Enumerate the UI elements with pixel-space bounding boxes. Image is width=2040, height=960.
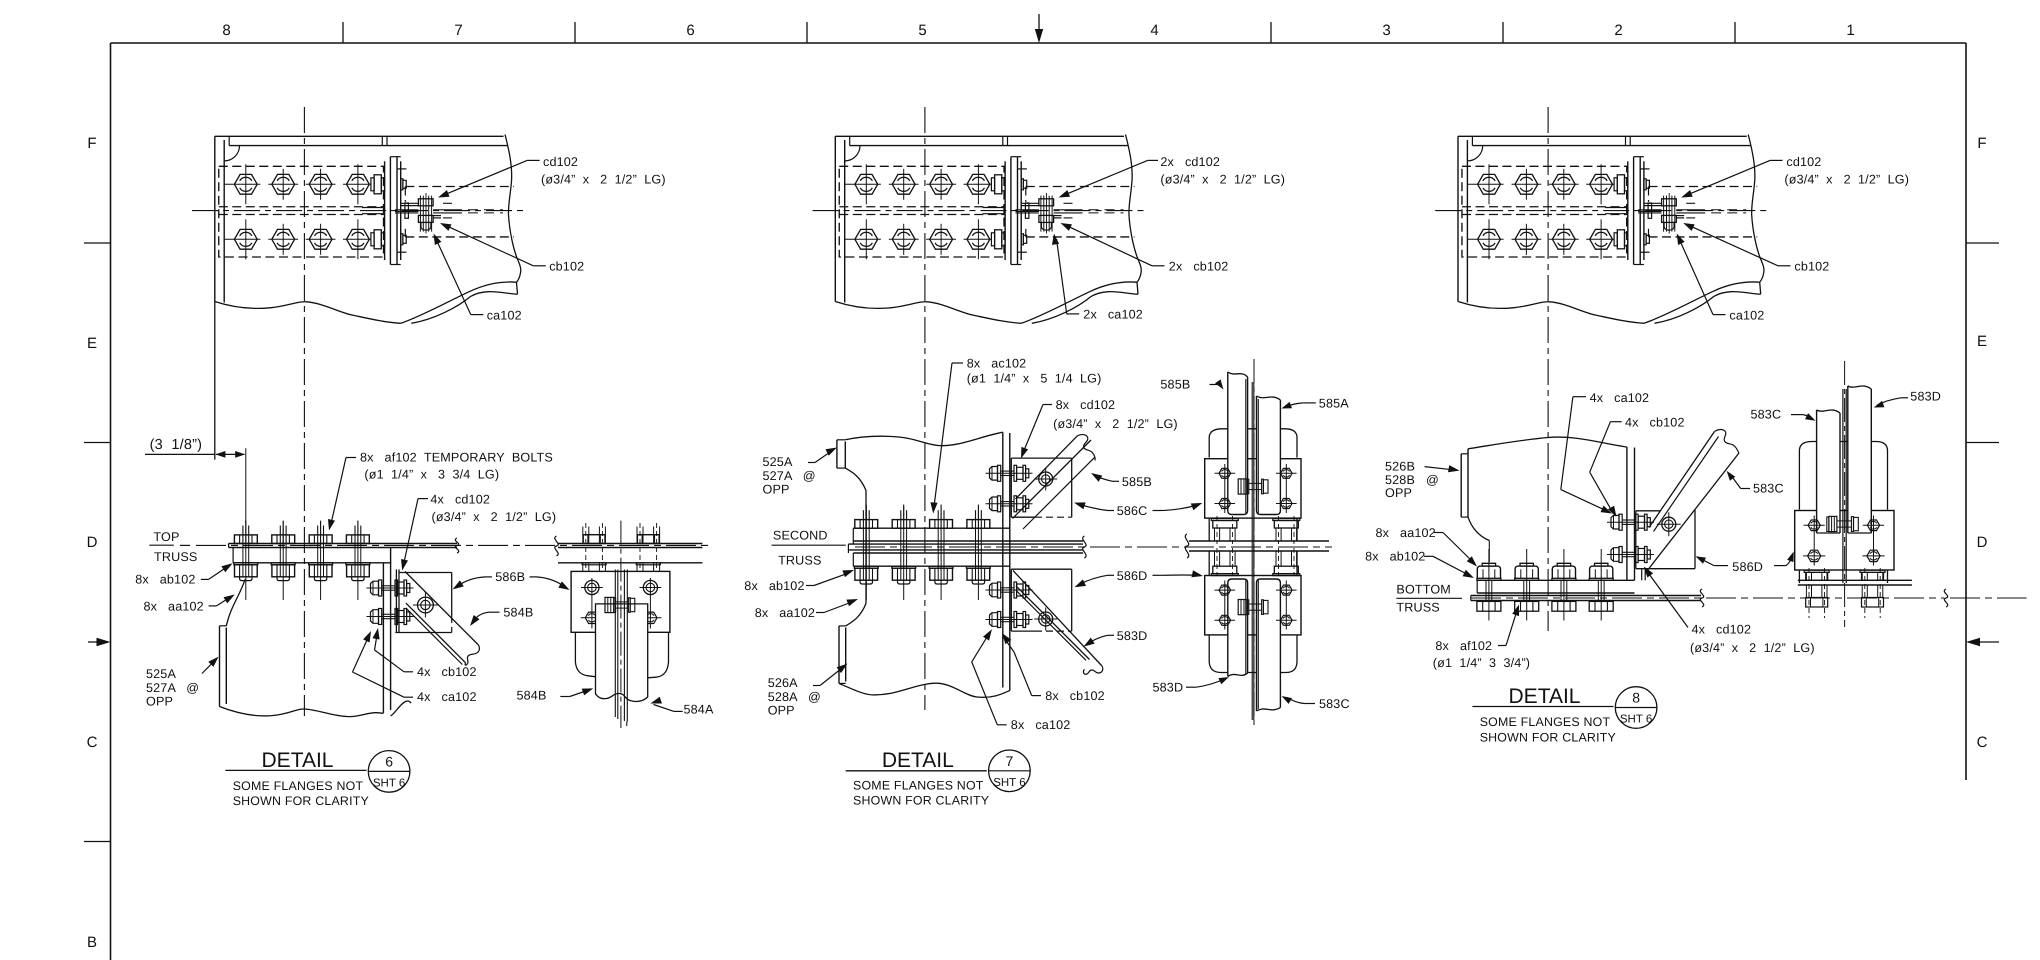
break arc outer: [1644, 282, 1760, 323]
svg-text:F: F: [1977, 135, 1986, 152]
flange bolt side view: [1614, 233, 1617, 246]
detail 7: chord plates: [853, 527, 1010, 529]
svg-text:8: 8: [1632, 690, 1640, 706]
bolt cd102/cb102/ca102 group at splice: [1040, 196, 1042, 232]
detail 6: vertical member (stem): [382, 563, 384, 713]
end flange plates: [1004, 161, 1006, 260]
splice plate edges: [401, 202, 419, 204]
d8 side: upper silhouette: [1798, 450, 1800, 510]
svg-text:(ø1 1/4” x 5 1/4 LG): (ø1 1/4” x 5 1/4 LG): [967, 372, 1102, 386]
hex bolt r1c2: [1515, 174, 1538, 194]
d8 side: centre plates: [1842, 389, 1844, 583]
gusset 586B flange: [395, 569, 397, 633]
wide flange member edge: [214, 136, 216, 301]
brace 585B (up): [1016, 436, 1078, 499]
zone tick top: [1734, 22, 1736, 43]
hex bolt r2c2: [892, 229, 915, 249]
label cb102 view3: [1778, 265, 1791, 267]
svg-text:583D: 583D: [1153, 681, 1184, 695]
svg-text:583D: 583D: [1910, 390, 1941, 404]
svg-text:5: 5: [918, 22, 926, 39]
label ca102 view3: [1713, 314, 1726, 316]
wire: [986, 619, 1033, 621]
svg-text:D: D: [87, 534, 98, 551]
svg-text:8x cb102: 8x cb102: [1045, 689, 1105, 703]
break line bottom: [1458, 302, 1644, 324]
flange bolt side view: [371, 178, 374, 191]
bolt row 2 gage line: [1467, 238, 1503, 240]
horizontal centreline: [813, 210, 1149, 212]
svg-text:TRUSS: TRUSS: [154, 550, 197, 564]
svg-text:DETAIL: DETAIL: [262, 749, 334, 772]
break line right edge: [1748, 135, 1764, 295]
svg-text:4x cd102: 4x cd102: [430, 492, 490, 506]
hidden outline of far member (dashed): [1026, 186, 1135, 188]
label 2x cb102 view2: [1152, 265, 1165, 267]
break line bottom: [215, 302, 401, 324]
svg-text:TOP: TOP: [153, 530, 179, 544]
svg-text:526A: 526A: [768, 676, 798, 690]
d8 side: plate: [1798, 579, 1912, 581]
zone tick top: [342, 22, 344, 43]
wire: [1607, 521, 1654, 523]
flange bolt side view: [991, 178, 994, 191]
hex bolt r1c3: [309, 174, 332, 194]
svg-text:8x ca102: 8x ca102: [1011, 718, 1071, 732]
svg-text:(ø1 1/4” x 3 3/4 LG): (ø1 1/4” x 3 3/4 LG): [364, 467, 499, 481]
hex bolt r1c2: [892, 174, 915, 194]
svg-text:4x cd102: 4x cd102: [1692, 622, 1752, 636]
svg-text:585B: 585B: [1122, 475, 1152, 489]
detail 6 member edge extension / dimension: [214, 302, 216, 460]
gusset 586D (d8): [1636, 510, 1661, 512]
label cb102 view1: [533, 265, 546, 267]
svg-text:584A: 584A: [684, 703, 714, 717]
svg-text:DETAIL: DETAIL: [882, 749, 954, 772]
horizontal centreline: [192, 210, 528, 212]
wide flange member edge: [834, 136, 836, 301]
hidden outline of far member (dashed): [405, 186, 514, 188]
d7 side: lower member silhouette: [1208, 635, 1210, 662]
bolt row 2 gage line: [845, 238, 881, 240]
splice plate edges: [1021, 202, 1039, 204]
svg-text:cb102: cb102: [1794, 260, 1829, 274]
hex bolt r2c4: [967, 229, 990, 249]
detail 6: truss chord plate: [233, 562, 391, 564]
svg-text:585A: 585A: [1319, 397, 1349, 411]
corner bend arc: [1467, 146, 1482, 161]
gusset plate 586B: [399, 572, 452, 574]
svg-text:SOME FLANGES NOT: SOME FLANGES NOT: [1480, 715, 1611, 729]
flange bolt side view: [1614, 178, 1617, 191]
break arc inner: [411, 292, 517, 324]
hex bolt r1c1: [234, 174, 257, 194]
svg-text:C: C: [1977, 734, 1988, 751]
svg-text:526B: 526B: [1385, 460, 1415, 474]
svg-text:SOME FLANGES NOT: SOME FLANGES NOT: [233, 779, 364, 793]
svg-text:8x af102: 8x af102: [1435, 639, 1492, 653]
svg-text:583D: 583D: [1117, 629, 1148, 643]
hex bolt r2c1: [855, 229, 878, 249]
svg-text:OPP: OPP: [768, 704, 795, 718]
gusset 586C (upper): [1011, 457, 1071, 459]
svg-text:F: F: [87, 135, 96, 152]
hex bolt r1c2: [272, 174, 295, 194]
detail 8: chord plates: [1477, 579, 1634, 581]
detail 7: left member: [837, 439, 845, 441]
wire: [986, 503, 1033, 505]
label 2x cd102 view2: [1148, 159, 1158, 161]
svg-text:525A: 525A: [763, 455, 793, 469]
svg-text:528B @: 528B @: [1385, 473, 1439, 487]
hex bolt r2c4: [347, 229, 370, 249]
hidden outline of bolted plate (dashed): [1462, 166, 1627, 257]
d7 side: columns 585B / 585A: [1228, 372, 1248, 515]
svg-text:E: E: [87, 335, 97, 352]
d8 side: nuts below block: [1804, 570, 1829, 572]
detail 8: vertical member: [1626, 447, 1628, 580]
svg-text:527A @: 527A @: [146, 681, 199, 695]
svg-text:8x ac102: 8x ac102: [967, 356, 1027, 370]
hex bolt r1c3: [930, 174, 953, 194]
break arc outer: [401, 282, 517, 323]
svg-text:584B: 584B: [517, 689, 547, 703]
svg-text:586C: 586C: [1117, 504, 1148, 518]
d8 side: block: [1795, 511, 1894, 571]
svg-text:525A: 525A: [146, 667, 176, 681]
zone tick right: [1966, 242, 1999, 244]
truss centreline detail 7: [855, 546, 1332, 548]
flange bolt side view: [991, 233, 994, 246]
detail 8: bolts af102 (head above, nut below): [1477, 578, 1501, 580]
break arc inner: [1032, 292, 1138, 324]
svg-text:SHOWN FOR CLARITY: SHOWN FOR CLARITY: [853, 794, 989, 808]
svg-text:4x ca102: 4x ca102: [417, 690, 477, 704]
label cd102 view1: [527, 159, 540, 161]
svg-text:8x aa102: 8x aa102: [144, 600, 204, 614]
dimension (3 1/8"): [145, 453, 215, 455]
side view brace column 584B: [596, 604, 648, 702]
svg-text:SHT 6: SHT 6: [373, 778, 405, 790]
wire: [986, 589, 1033, 591]
bolt row 2 gage line: [224, 238, 260, 240]
hex bolt r2c2: [272, 229, 295, 249]
svg-text:cd102: cd102: [543, 155, 578, 169]
detail 7: break line bottom: [839, 683, 1010, 697]
truss centreline detail 6: [196, 544, 712, 546]
d7 side: lower block 586D: [1205, 576, 1301, 635]
zone tick right: [1966, 442, 1999, 444]
hex bolt r1c1: [855, 174, 878, 194]
d8 side: block fasteners: [1813, 516, 1815, 566]
svg-text:(3 1/8”): (3 1/8”): [150, 437, 203, 453]
datum arrow right: [1972, 641, 1999, 643]
svg-text:cd102: cd102: [1786, 155, 1821, 169]
hidden centre plate edges: [219, 206, 385, 208]
svg-text:TRUSS: TRUSS: [778, 553, 821, 567]
svg-text:SHT 6: SHT 6: [993, 777, 1025, 789]
top flange band: [215, 135, 504, 137]
end flange plates: [384, 161, 386, 260]
hidden centre plate edges: [1462, 206, 1628, 208]
svg-text:8x ab102: 8x ab102: [135, 573, 195, 587]
svg-text:4: 4: [1150, 22, 1158, 39]
bolt cd102/cb102/ca102 group at splice: [1663, 196, 1665, 232]
wire: [1607, 554, 1654, 556]
svg-text:8x af102 TEMPORARY BOLTS: 8x af102 TEMPORARY BOLTS: [360, 451, 553, 465]
d7 side: lower block fasteners: [1224, 581, 1226, 630]
hex bolt r1c1: [1478, 174, 1501, 194]
hidden outline of bolted plate (dashed): [219, 166, 384, 257]
corner bend arc: [845, 146, 860, 161]
svg-text:SECOND: SECOND: [773, 528, 828, 542]
svg-text:8x ab102: 8x ab102: [744, 579, 804, 593]
label 2x ca102 view2: [1067, 313, 1080, 315]
bolt row 1 gage line: [845, 183, 881, 185]
hex bolt r2c3: [309, 229, 332, 249]
splice plate edges: [1644, 202, 1662, 204]
zone tick top: [806, 22, 808, 43]
bolt row 1 gage line: [1467, 183, 1503, 185]
d7 side: centre plates: [1251, 382, 1253, 720]
hex bolt r1c3: [1552, 174, 1575, 194]
hex bolt r1c4: [1590, 174, 1613, 194]
svg-text:583C: 583C: [1751, 407, 1782, 421]
bolt cd102/cb102/ca102 group at splice: [419, 196, 421, 232]
flange bolt side view: [371, 233, 374, 246]
svg-text:586D: 586D: [1117, 569, 1148, 583]
d7 side: plates: [1189, 540, 1329, 542]
hidden outline of bolted plate (dashed): [839, 166, 1004, 257]
d7 side: horizontal bolts: [1249, 482, 1262, 484]
side view gusset block 586B: [571, 571, 670, 632]
svg-text:7: 7: [1006, 753, 1014, 769]
svg-text:583C: 583C: [1753, 481, 1784, 495]
svg-text:(ø3/4” x 2 1/2” LG): (ø3/4” x 2 1/2” LG): [1053, 417, 1178, 431]
hex bolt r2c2: [1515, 229, 1538, 249]
svg-text:(ø1 1/4” 3 3/4”): (ø1 1/4” 3 3/4”): [1433, 656, 1530, 670]
svg-text:4x ca102: 4x ca102: [1590, 391, 1650, 405]
svg-text:OPP: OPP: [1385, 486, 1412, 500]
corner bend arc: [224, 146, 239, 161]
side view lower member silhouette: [574, 632, 576, 662]
detail 7: break line top: [845, 432, 1003, 445]
svg-text:2x cb102: 2x cb102: [1169, 260, 1229, 274]
wire: [986, 472, 1033, 474]
svg-text:8: 8: [222, 22, 230, 39]
side view horizontal bolt: [616, 601, 629, 603]
svg-text:OPP: OPP: [763, 483, 790, 497]
top view detail 6: [192, 135, 528, 324]
detail 7: bolts above/below: [855, 520, 878, 529]
svg-text:BOTTOM: BOTTOM: [1396, 583, 1451, 597]
svg-text:SHOWN FOR CLARITY: SHOWN FOR CLARITY: [233, 794, 369, 808]
zone tick left: [84, 841, 111, 843]
detail 6: bolts below plate: [234, 563, 258, 565]
d8 side: columns 583C / 583D: [1817, 410, 1840, 533]
label cd102 view3: [1770, 159, 1783, 161]
svg-text:527A @: 527A @: [763, 469, 816, 483]
svg-text:8x aa102: 8x aa102: [755, 606, 815, 620]
web edge lines: [1638, 209, 1661, 211]
side view centre plates 584A: [614, 570, 616, 718]
svg-text:583C: 583C: [1319, 697, 1350, 711]
d7 side: upper block fasteners: [1224, 464, 1226, 513]
hex bolt r2c4: [1590, 229, 1613, 249]
svg-text:E: E: [1977, 333, 1987, 350]
svg-text:(ø3/4” x 2 1/2” LG): (ø3/4” x 2 1/2” LG): [432, 510, 557, 524]
svg-text:(ø3/4” x 2 1/2” LG): (ø3/4” x 2 1/2” LG): [1784, 172, 1909, 186]
svg-text:B: B: [87, 934, 97, 951]
top view detail 8: [1435, 135, 1771, 324]
datum arrow top: [1038, 14, 1040, 40]
break arc outer: [1021, 282, 1137, 323]
svg-text:586B: 586B: [495, 570, 525, 584]
brace 583C (d8): [1645, 453, 1739, 574]
svg-text:cb102: cb102: [549, 260, 584, 274]
wire: [367, 616, 414, 618]
detail 6: break line bottom: [220, 707, 384, 717]
gusset 586D (lower): [1011, 568, 1071, 570]
top flange band: [835, 135, 1124, 137]
svg-text:ca102: ca102: [487, 309, 522, 323]
svg-text:8x cd102: 8x cd102: [1056, 398, 1116, 412]
svg-text:4x cb102: 4x cb102: [1625, 416, 1685, 430]
zone tick left: [84, 242, 111, 244]
svg-text:586D: 586D: [1732, 560, 1763, 574]
detail 7: vertical member: [1002, 432, 1004, 687]
svg-text:1: 1: [1846, 22, 1854, 39]
svg-text:7: 7: [454, 22, 462, 39]
svg-text:OPP: OPP: [146, 695, 173, 709]
centreline detail 8: [1547, 107, 1549, 631]
label ca102 view1: [471, 314, 484, 316]
side view bolts above (af102): [583, 535, 605, 544]
svg-text:528A @: 528A @: [768, 690, 821, 704]
top view detail 7: [813, 135, 1149, 324]
detail 8: left member: [1468, 437, 1627, 449]
hex bolt r1c4: [967, 174, 990, 194]
end flange plates: [1627, 161, 1629, 260]
hidden centre plate edges: [839, 206, 1005, 208]
svg-text:D: D: [1977, 534, 1988, 551]
zone tick top: [1502, 22, 1504, 43]
svg-text:DETAIL: DETAIL: [1509, 685, 1581, 708]
hex bolt r1c4: [347, 174, 370, 194]
svg-text:(ø3/4” x 2 1/2” LG): (ø3/4” x 2 1/2” LG): [1690, 641, 1815, 655]
bolt hole 584B: [418, 597, 434, 613]
svg-text:SHT 6: SHT 6: [1620, 714, 1652, 726]
hex bolt r2c3: [1552, 229, 1575, 249]
d7 side: upper block 586C: [1205, 459, 1301, 518]
hex bolt r2c3: [930, 229, 953, 249]
detail 6: member left edge lower: [226, 579, 245, 626]
svg-text:584B: 584B: [503, 605, 533, 619]
svg-text:8x ab102: 8x ab102: [1365, 550, 1425, 564]
zone tick top: [574, 22, 576, 43]
wire: [367, 587, 414, 589]
wide flange member edge: [1457, 136, 1459, 301]
brace 583D (down): [1013, 571, 1102, 667]
svg-text:(ø3/4” x 2 1/2” LG): (ø3/4” x 2 1/2” LG): [1160, 172, 1285, 186]
svg-text:3: 3: [1382, 22, 1390, 39]
svg-text:ca102: ca102: [1729, 309, 1764, 323]
web edge lines: [395, 209, 418, 211]
web edge lines: [1016, 209, 1039, 211]
datum arrow left: [88, 641, 104, 643]
d7 side: bolt nut groups between blocks and plates: [1211, 519, 1238, 521]
gusset seat: [1641, 569, 1643, 581]
top flange band: [1458, 135, 1747, 137]
svg-text:SHOWN FOR CLARITY: SHOWN FOR CLARITY: [1480, 730, 1616, 744]
break arc inner: [1655, 292, 1761, 324]
hex bolt r2c1: [1478, 229, 1501, 249]
detail 6 side view: splice/chord plates: [558, 543, 702, 545]
hidden outline of far member (dashed): [1649, 186, 1758, 188]
svg-text:2x ca102: 2x ca102: [1083, 308, 1143, 322]
svg-text:SOME FLANGES NOT: SOME FLANGES NOT: [853, 779, 984, 793]
zone tick left: [84, 442, 111, 444]
centreline detail 7: [924, 107, 926, 710]
centreline detail 6: [303, 107, 305, 716]
detail 6: splice plate: [229, 543, 457, 545]
zone tick top: [1270, 22, 1272, 43]
d7 side: lower columns 583D / 583C: [1228, 579, 1248, 677]
svg-text:585B: 585B: [1160, 378, 1190, 392]
break line right edge: [1126, 135, 1142, 295]
horizontal centreline: [1435, 210, 1771, 212]
d7 side: upper member silhouette: [1208, 437, 1210, 458]
hex bolt r2c1: [234, 229, 257, 249]
truss centreline detail 8: [1471, 597, 1944, 599]
svg-text:C: C: [87, 734, 98, 751]
detail 6: temporary bolts af102 (above): [234, 535, 257, 544]
brace 584B: [405, 572, 479, 646]
break line bottom: [835, 302, 1021, 324]
svg-text:(ø3/4” x 2 1/2” LG): (ø3/4” x 2 1/2” LG): [541, 172, 666, 186]
svg-text:2x cd102: 2x cd102: [1160, 155, 1220, 169]
svg-text:6: 6: [385, 754, 393, 770]
svg-text:6: 6: [686, 22, 694, 39]
svg-text:4x cb102: 4x cb102: [417, 665, 477, 679]
break line right edge: [505, 135, 521, 295]
svg-text:2: 2: [1614, 22, 1622, 39]
svg-text:TRUSS: TRUSS: [1396, 601, 1439, 615]
svg-text:8x aa102: 8x aa102: [1376, 526, 1436, 540]
border frame: [111, 42, 1967, 44]
bolt row 1 gage line: [224, 183, 260, 185]
